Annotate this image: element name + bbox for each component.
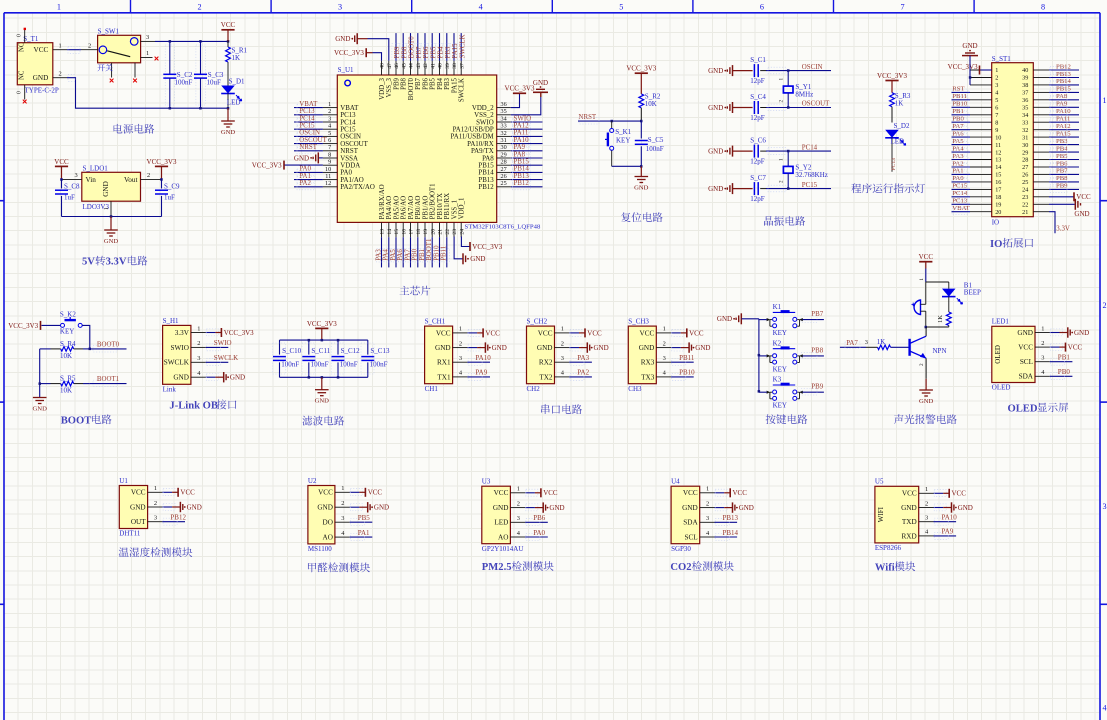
connector T1 TYPE-C-2P	[17, 30, 68, 100]
switch SW1	[81, 27, 155, 77]
wire	[1050, 332, 1060, 334]
pin 2 GND	[537, 340, 569, 352]
svg-text:GND: GND	[708, 104, 723, 112]
wire	[162, 506, 172, 508]
svg-text:1: 1	[995, 67, 998, 74]
svg-text:GND: GND	[634, 184, 649, 191]
svg-text:4: 4	[1103, 704, 1107, 713]
caption 声光报警电路	[894, 414, 957, 424]
svg-text:OSCOUT: OSCOUT	[802, 101, 830, 108]
pin 1 VCC	[683, 486, 715, 498]
svg-text:2: 2	[706, 500, 709, 507]
net label PB14	[1049, 78, 1079, 88]
wire top rail	[280, 339, 368, 341]
LED in alarm	[942, 282, 963, 304]
svg-text:PB4: PB4	[438, 46, 445, 58]
svg-text:45: 45	[401, 63, 407, 69]
svg-text:PB13: PB13	[1056, 71, 1072, 78]
svg-text:LED: LED	[891, 138, 905, 146]
net label BOOT1	[426, 237, 435, 267]
pin 33 PA12/USB/DP	[453, 123, 511, 134]
net label PB6	[421, 33, 430, 61]
svg-text:18: 18	[416, 229, 422, 235]
pin 1 GND	[1017, 325, 1049, 337]
wire	[61, 166, 63, 179]
net label PB3	[1049, 138, 1079, 148]
wire	[759, 319, 767, 321]
pin 3 RX1	[437, 355, 467, 367]
net label VBAT	[294, 101, 323, 111]
pin 18 PB0/AO	[415, 196, 422, 238]
power VCC_3V3	[252, 161, 284, 170]
net label PB8	[1049, 175, 1079, 185]
ruler tick	[833, 0, 835, 13]
svg-text:S_CH1: S_CH1	[425, 318, 446, 326]
net label SWCLK	[457, 33, 466, 61]
net label PB14	[715, 529, 739, 541]
svg-text:1: 1	[154, 485, 157, 492]
power VCC_3V3	[334, 48, 366, 57]
svg-text:PA4/AO: PA4/AO	[386, 196, 393, 220]
svg-text:1: 1	[919, 278, 925, 281]
svg-text:PB11/RX: PB11/RX	[444, 193, 451, 220]
net label PB8	[801, 347, 824, 358]
svg-text:RX1: RX1	[437, 359, 451, 367]
svg-text:CH3: CH3	[628, 385, 642, 393]
pin 13	[970, 157, 1001, 164]
net label PA8	[1049, 93, 1079, 103]
svg-text:VCC_3V3: VCC_3V3	[224, 329, 254, 337]
power VCC	[365, 488, 382, 497]
svg-text:GND: GND	[695, 344, 710, 352]
pin 17 PA7/AO	[408, 196, 415, 237]
svg-text:PB14: PB14	[723, 529, 739, 537]
svg-text:NPN: NPN	[933, 347, 947, 355]
svg-text:3.3V: 3.3V	[1056, 226, 1070, 233]
caption 甲醛检测模块	[308, 562, 370, 572]
svg-text:NC: NC	[19, 42, 26, 52]
svg-text:GND: GND	[493, 504, 509, 512]
svg-text:37: 37	[459, 63, 465, 69]
pin 2 GND	[493, 500, 525, 512]
svg-text:PB1: PB1	[1058, 354, 1071, 362]
wire VSSA	[319, 157, 323, 159]
svg-text:PB2/BOOT1: PB2/BOOT1	[430, 183, 437, 220]
svg-text:2: 2	[459, 340, 462, 347]
svg-text:6: 6	[328, 137, 331, 144]
wire	[525, 492, 535, 494]
svg-text:1: 1	[925, 486, 928, 493]
power VCC	[949, 489, 966, 498]
svg-text:PA2/TX/AO: PA2/TX/AO	[340, 184, 375, 191]
junction	[321, 376, 324, 379]
ruler tick	[130, 0, 132, 13]
net label BOOT0	[90, 341, 127, 352]
net label PB12	[511, 180, 543, 190]
net label OSCIN	[294, 130, 323, 140]
svg-text:VCC: VCC	[368, 489, 383, 497]
caption 串口电路	[541, 404, 582, 414]
capacitor C10	[273, 340, 302, 377]
no-ERC marker	[24, 28, 26, 30]
net label PA10	[1049, 108, 1079, 118]
svg-text:SGP30: SGP30	[671, 545, 691, 553]
svg-text:S_R5: S_R5	[60, 375, 76, 383]
svg-text:K3: K3	[773, 376, 782, 384]
junction	[787, 106, 790, 109]
svg-text:PB9: PB9	[811, 384, 823, 391]
svg-text:VCC: VCC	[1076, 193, 1091, 201]
svg-text:PC13: PC13	[952, 198, 968, 205]
svg-text:24: 24	[459, 229, 465, 235]
pin 40	[1022, 67, 1049, 74]
junction	[969, 76, 972, 79]
svg-text:MS1100: MS1100	[308, 545, 332, 553]
pin 1 VCC	[640, 326, 672, 338]
wire	[467, 332, 477, 334]
net label PB7	[1049, 168, 1079, 178]
svg-text:VCC_3V3: VCC_3V3	[472, 243, 502, 251]
svg-text:3: 3	[517, 515, 520, 522]
net label SWIO	[206, 339, 232, 351]
net label PA4	[952, 145, 971, 155]
net label PA9	[511, 144, 543, 154]
svg-text:12pF: 12pF	[750, 195, 765, 203]
svg-text:1: 1	[517, 486, 520, 493]
pin 37	[1022, 90, 1049, 97]
svg-text:22: 22	[445, 229, 451, 235]
svg-text:2: 2	[778, 100, 784, 103]
pin 3 OUT	[131, 515, 163, 527]
ground	[634, 177, 649, 192]
pin 4 GND	[173, 370, 205, 382]
svg-text:16: 16	[401, 229, 407, 235]
svg-text:VCC_3V3: VCC_3V3	[8, 322, 38, 330]
net label PB15	[1049, 86, 1079, 96]
svg-text:GP2Y1014AU: GP2Y1014AU	[482, 545, 524, 553]
net label PB4	[435, 33, 444, 61]
pin 31 PA10/RX	[467, 137, 511, 148]
wire	[981, 69, 992, 71]
svg-text:NC: NC	[19, 70, 26, 80]
svg-text:J-Link OB: J-Link OB	[169, 400, 218, 411]
pin 32	[1022, 127, 1049, 134]
capacitor C8	[55, 179, 80, 216]
svg-text:PB3: PB3	[445, 46, 452, 58]
svg-text:12pF: 12pF	[750, 114, 765, 122]
svg-text:7: 7	[995, 112, 998, 119]
ground	[952, 502, 973, 512]
pin 36	[1022, 97, 1049, 104]
svg-text:S_C10: S_C10	[282, 347, 302, 355]
svg-text:1: 1	[561, 326, 564, 333]
net label PB0	[1050, 368, 1073, 380]
ground	[962, 42, 978, 55]
net label PA8	[511, 151, 543, 161]
svg-text:9: 9	[328, 159, 331, 166]
svg-text:S_T1: S_T1	[23, 35, 39, 43]
svg-text:OSCIN: OSCIN	[299, 130, 320, 137]
net label PB3	[443, 33, 452, 61]
pin 22	[1022, 202, 1049, 209]
net label PC15	[294, 123, 323, 133]
svg-text:PB9: PB9	[394, 46, 401, 58]
svg-text:GND: GND	[708, 67, 723, 75]
svg-text:1K: 1K	[937, 315, 944, 323]
sensor U2 MS1100	[308, 477, 335, 553]
svg-text:PB12: PB12	[478, 184, 494, 191]
wire GND stem	[110, 217, 112, 231]
svg-text:LED: LED	[494, 519, 508, 527]
pin 48 VDD_3	[379, 61, 386, 100]
svg-text:3: 3	[706, 515, 709, 522]
power VCC	[221, 21, 236, 30]
svg-text:PB7: PB7	[416, 46, 423, 58]
connector CH1 serial	[425, 318, 453, 393]
svg-text:GND: GND	[130, 503, 146, 511]
svg-text:1K: 1K	[895, 99, 904, 107]
resistor R2	[639, 93, 661, 122]
wire	[525, 507, 535, 509]
svg-text:11: 11	[325, 173, 331, 180]
svg-text:VSSA: VSSA	[340, 155, 358, 162]
pin 37 SWCLK	[459, 61, 466, 102]
pin 8 VSSA	[323, 151, 358, 162]
svg-text:3: 3	[328, 115, 331, 122]
pin 33	[1022, 119, 1049, 126]
svg-text:PB12: PB12	[170, 514, 186, 522]
svg-text:VCC: VCC	[543, 489, 558, 497]
pin 20 PB2/BOOT1	[430, 183, 437, 237]
svg-text:PA12/USB/DP: PA12/USB/DP	[453, 127, 494, 134]
svg-text:GND: GND	[315, 398, 330, 405]
svg-text:TXD: TXD	[902, 518, 917, 526]
svg-text:KEY: KEY	[773, 402, 787, 410]
svg-text:RXD: RXD	[902, 532, 917, 540]
junction	[640, 120, 643, 123]
pin 46 PB9	[393, 61, 400, 90]
svg-text:VCC: VCC	[689, 329, 704, 337]
junction	[227, 107, 230, 110]
net label PB1	[1050, 354, 1073, 366]
pin 30 PA9/TX	[471, 144, 511, 155]
svg-text:VDD_1: VDD_1	[459, 197, 466, 219]
svg-text:S_K2: S_K2	[60, 311, 76, 319]
svg-text:PA0: PA0	[299, 166, 311, 173]
MCU U1 STM32F103C8T6	[337, 66, 541, 230]
svg-text:10K: 10K	[60, 352, 72, 360]
svg-text:PA6/AO: PA6/AO	[401, 196, 408, 220]
svg-text:24: 24	[1022, 187, 1028, 194]
svg-text:VCC: VCC	[683, 489, 698, 497]
svg-text:GND: GND	[958, 504, 973, 512]
svg-text:TYPE-C-2P: TYPE-C-2P	[25, 86, 59, 94]
svg-text:S_C12: S_C12	[341, 347, 361, 355]
ground	[221, 121, 236, 136]
svg-text:2: 2	[919, 363, 925, 366]
svg-text:PA2: PA2	[577, 369, 589, 377]
svg-text:2: 2	[663, 340, 666, 347]
caption Wifi模块	[875, 561, 915, 573]
svg-text:PB1/AO: PB1/AO	[422, 196, 429, 220]
caption 主芯片	[400, 286, 431, 296]
svg-text:2: 2	[1103, 301, 1107, 310]
svg-text:3.3V: 3.3V	[175, 329, 190, 337]
svg-text:PC14: PC14	[952, 190, 968, 197]
net label SWIO	[511, 115, 543, 125]
svg-text:PB15: PB15	[478, 163, 494, 170]
svg-text:VCC: VCC	[1018, 344, 1033, 352]
caption 程序运行指示灯	[851, 183, 925, 193]
svg-text:3: 3	[459, 355, 462, 362]
pin 23 VSS_1	[451, 199, 458, 237]
caption J-Link OB接口	[169, 399, 236, 411]
wire top node	[926, 281, 949, 283]
svg-text:100nF: 100nF	[340, 361, 358, 369]
svg-text:GND: GND	[492, 344, 507, 352]
svg-text:GND: GND	[33, 405, 48, 412]
svg-text:AO: AO	[498, 533, 508, 541]
svg-text:VCC: VCC	[902, 490, 917, 498]
svg-text:8: 8	[328, 151, 331, 158]
svg-text:GND: GND	[549, 504, 564, 512]
wire	[350, 491, 360, 493]
svg-text:15: 15	[995, 172, 1001, 179]
wire	[640, 73, 642, 94]
sheet border left line	[3, 13, 5, 720]
capacitor C12	[331, 340, 360, 377]
svg-text:PB8: PB8	[811, 347, 823, 354]
net label PA4	[383, 237, 392, 267]
pin 16 PA6/AO	[401, 196, 408, 237]
wire	[569, 332, 579, 334]
capacitor S_C6	[733, 137, 767, 166]
svg-text:28: 28	[501, 159, 507, 166]
power VCC_3V3	[948, 63, 980, 74]
svg-text:VDD_2: VDD_2	[472, 105, 494, 112]
ground	[533, 79, 548, 97]
svg-text:S_C5: S_C5	[648, 136, 664, 144]
svg-text:1: 1	[59, 42, 62, 49]
power VCC_3V3	[307, 320, 337, 329]
net label PA10	[467, 354, 491, 366]
svg-text:VCC_3V3: VCC_3V3	[307, 320, 337, 328]
svg-text:U4: U4	[671, 478, 680, 486]
svg-text:OSCIN: OSCIN	[340, 134, 361, 141]
pin 28	[1022, 157, 1049, 164]
svg-text:3: 3	[197, 355, 200, 362]
svg-text:10K: 10K	[645, 100, 657, 108]
wire	[969, 56, 971, 85]
svg-text:ESP8266: ESP8266	[875, 544, 902, 552]
junction	[169, 40, 172, 43]
capacitor C3	[194, 41, 224, 108]
svg-text:PB8: PB8	[401, 77, 408, 89]
svg-text:42: 42	[423, 63, 429, 69]
net label PB10	[433, 237, 442, 267]
pin 1	[970, 67, 998, 74]
net label PA15	[1049, 130, 1079, 140]
wire 3.3V pin 21	[1049, 212, 1055, 234]
svg-text:100nF: 100nF	[370, 361, 388, 369]
pin 38 PA15	[451, 61, 458, 93]
wire VCC rail	[155, 40, 228, 42]
svg-text:44: 44	[409, 63, 415, 69]
net label PC14	[952, 190, 971, 200]
svg-text:21: 21	[1022, 209, 1028, 216]
pin 3	[970, 82, 998, 89]
pin 2 GND	[901, 500, 933, 512]
svg-text:Vin: Vin	[86, 176, 97, 184]
no-ERC marker	[133, 79, 137, 83]
svg-text:RX2: RX2	[539, 359, 553, 367]
svg-text:PB13: PB13	[723, 514, 739, 522]
svg-text:OUT: OUT	[131, 518, 146, 526]
net label PA2	[294, 180, 323, 190]
svg-text:VCC: VCC	[919, 253, 934, 261]
net label PB5	[428, 33, 437, 61]
svg-text:12pF: 12pF	[750, 157, 765, 165]
pin 2 GND	[682, 500, 714, 512]
wire	[934, 507, 944, 509]
svg-text:GND: GND	[717, 315, 732, 323]
caption CO2检测模块	[670, 561, 733, 573]
svg-text:PC15: PC15	[802, 182, 818, 189]
pin 32 PA11/USB/DM	[451, 130, 511, 141]
ground	[224, 372, 245, 382]
svg-text:NRST: NRST	[340, 148, 358, 155]
svg-text:GND: GND	[374, 504, 389, 512]
pin 31	[1022, 134, 1049, 141]
svg-text:21: 21	[438, 229, 444, 235]
capacitor C9	[155, 179, 180, 216]
pin 12 PA2/TX/AO	[323, 180, 375, 191]
svg-text:OSCIN: OSCIN	[802, 64, 823, 71]
pin 4 TX3	[641, 370, 671, 382]
caption BOOT电路	[61, 414, 112, 426]
svg-text:2: 2	[147, 172, 150, 179]
junction	[640, 165, 643, 168]
svg-text:BOOT0: BOOT0	[409, 36, 416, 59]
svg-text:1: 1	[663, 326, 666, 333]
no-ERC marker	[155, 57, 159, 61]
svg-text:7: 7	[900, 2, 904, 11]
ruler tick	[973, 0, 975, 13]
caption IO拓展口	[990, 238, 1033, 250]
net label PA10	[934, 514, 958, 526]
svg-text:PA15: PA15	[1056, 130, 1071, 137]
pin 4 PC15	[323, 123, 356, 134]
push button K3	[767, 376, 803, 410]
svg-text:PB8: PB8	[401, 46, 408, 58]
net label RST	[952, 86, 971, 96]
svg-text:3: 3	[75, 172, 78, 179]
svg-text:VCC: VCC	[221, 21, 236, 29]
svg-text:34: 34	[1022, 112, 1028, 119]
push button K2	[767, 339, 803, 373]
svg-text:23: 23	[1022, 194, 1028, 201]
wire bottom node	[926, 326, 949, 328]
svg-text:1: 1	[104, 207, 110, 210]
ground	[717, 313, 741, 324]
pin 44 BOOT0	[408, 61, 415, 100]
svg-text:VCC: VCC	[733, 489, 748, 497]
svg-text:2: 2	[341, 500, 344, 507]
svg-text:TX2: TX2	[539, 373, 553, 381]
svg-text:VDDA: VDDA	[340, 163, 360, 170]
svg-text:PA11/USB/DM: PA11/USB/DM	[451, 134, 494, 141]
pin 4 SDA	[1019, 369, 1050, 381]
